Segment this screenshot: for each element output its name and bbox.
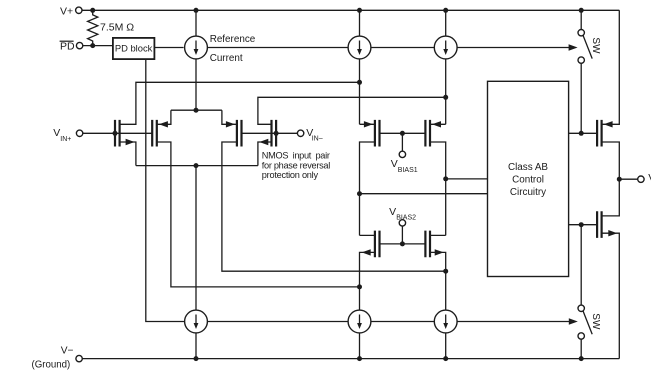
svg-text:NMOS input pair: NMOS input pair <box>262 150 330 160</box>
svg-text:7.5M Ω: 7.5M Ω <box>100 22 134 34</box>
svg-text:(Ground): (Ground) <box>32 360 71 371</box>
svg-text:for phase reversal: for phase reversal <box>262 160 330 170</box>
svg-text:V: V <box>391 158 398 170</box>
svg-text:SW: SW <box>590 313 601 330</box>
svg-text:BIAS2: BIAS2 <box>396 214 416 221</box>
svg-text:Circuitry: Circuitry <box>510 187 546 198</box>
svg-text:V: V <box>53 127 60 139</box>
svg-text:PD block: PD block <box>115 42 153 53</box>
svg-text:V−: V− <box>61 346 74 357</box>
svg-text:Class AB: Class AB <box>508 162 548 173</box>
svg-text:Current: Current <box>210 53 243 64</box>
svg-text:Control: Control <box>512 175 544 186</box>
svg-text:SW: SW <box>590 37 601 54</box>
svg-text:V: V <box>389 206 396 218</box>
svg-text:BIAS1: BIAS1 <box>398 167 418 174</box>
svg-text:Reference: Reference <box>210 34 256 45</box>
svg-text:PD: PD <box>60 41 75 53</box>
svg-text:IN+: IN+ <box>60 136 71 143</box>
svg-text:protection only: protection only <box>262 170 319 180</box>
svg-text:IN–: IN– <box>312 136 323 143</box>
svg-text:V+: V+ <box>60 5 73 17</box>
